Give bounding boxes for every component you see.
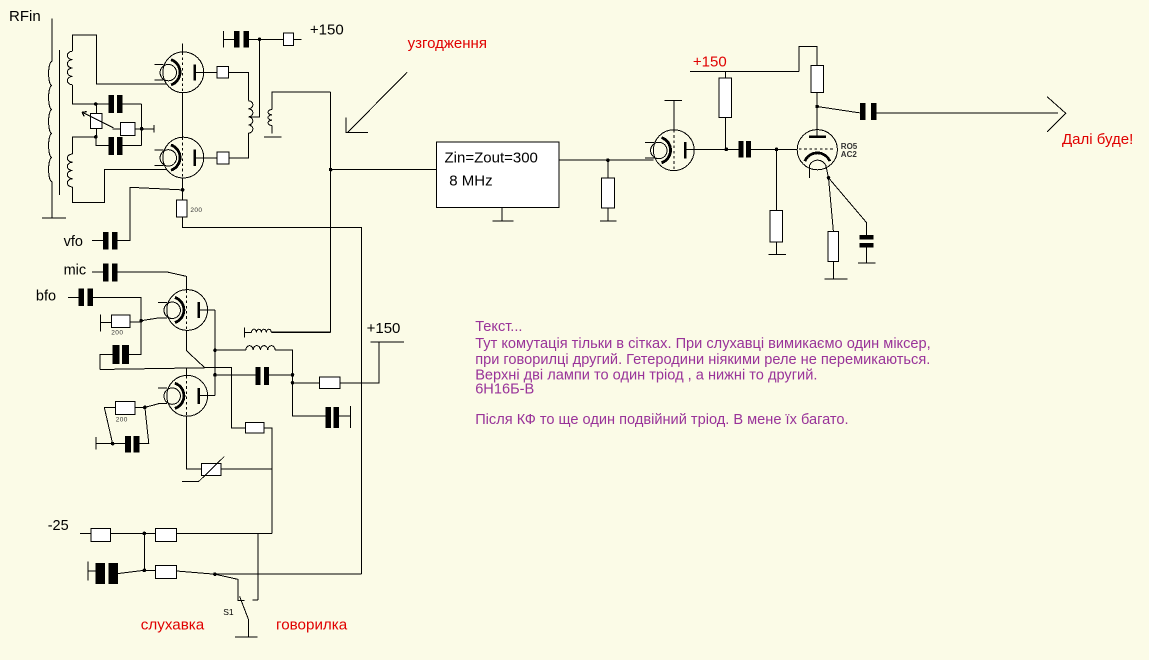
triode V4 RO5 AC2 [797, 130, 837, 178]
resistor R11 200 [111, 315, 130, 328]
node bus to filter [329, 168, 333, 172]
svg-text:+150: +150 [367, 320, 401, 337]
svg-text:200: 200 [111, 329, 123, 336]
wire C6 to ground [866, 247, 868, 263]
resistor R6 (V3 anode load) [719, 78, 732, 118]
node cap row junction [213, 373, 217, 377]
wire output arrowhead [1047, 97, 1066, 132]
trimmer RV1 wiper arrow [82, 112, 113, 128]
wire main bus vertical [271, 92, 330, 332]
node V4 labels RO5 AC2 [841, 142, 858, 159]
wire bfo line down to C10 [129, 321, 141, 355]
triode V6 (lower mixer-2 half) [158, 375, 207, 416]
wire grid bus V1/V2 solid segments [182, 44, 184, 190]
node cathode junction [827, 176, 831, 180]
resistor R16 [156, 565, 177, 578]
wire V6 anode to bus [200, 395, 215, 397]
svg-text:+150: +150 [693, 53, 727, 70]
wire anode bus vertical [214, 310, 216, 396]
svg-text:Текст...: Текст... [475, 319, 522, 335]
terminal stub +150 feed [222, 31, 224, 48]
wire cap row [215, 374, 293, 376]
wire RFin antenna lead [51, 18, 53, 61]
wire V5 anode to bus [200, 309, 215, 311]
wire stub to C14 [96, 443, 112, 445]
wire switch throw contact [253, 533, 259, 599]
wire R3 stub [293, 38, 301, 40]
capacitor C3 (lower tuning cap) [109, 137, 123, 155]
node commentary text block (purple) [475, 319, 931, 428]
wire filter output [559, 159, 653, 161]
grid V4 dashed [799, 148, 833, 150]
wire bias line to R13 [100, 367, 246, 428]
resistor R13 [246, 423, 264, 433]
node grid junction V4 [775, 148, 779, 152]
resistor R3 (+150 feed) [283, 33, 293, 46]
wire rail jog to R7 [799, 47, 817, 72]
capacitor C1 (decoupling) [234, 31, 249, 48]
wire bus to filter box [331, 169, 437, 171]
wire junction to R16 [144, 569, 155, 571]
svg-text:слухавка: слухавка [141, 617, 205, 634]
wire C13 to junction [118, 570, 144, 573]
wire cathode to R9 [829, 178, 834, 232]
node row B junction [213, 348, 217, 352]
capacitor C11 [256, 367, 270, 385]
wire V3 grid top lead [673, 100, 675, 129]
wire bottom rail of tuning network [96, 137, 142, 146]
wire cathode to C6 [829, 178, 867, 235]
trimmer resistor RV1 leads [95, 104, 97, 137]
resistor R8 (V4 grid leak) [770, 211, 782, 243]
wire vfo cap to grid junction [118, 187, 183, 240]
grid V6 dashed [186, 376, 188, 416]
wire row B left [215, 349, 246, 351]
svg-text:говорилка: говорилка [276, 617, 348, 634]
wire C10 to bias line [100, 355, 113, 370]
trimmer RV2 leads [221, 468, 272, 470]
ground [493, 220, 514, 222]
switch S1 lever [240, 596, 249, 636]
node junction wiper net [140, 127, 144, 131]
wire R11 to V5 cathode [130, 318, 164, 322]
trimmer RV2 slash [198, 457, 224, 482]
wire to grid resistor R5 [607, 160, 609, 178]
wire stub to R11 [101, 322, 112, 324]
terminal stub V5 200 resistor [100, 315, 102, 332]
wire R12 leads [293, 342, 379, 383]
capacitor C10 [113, 345, 129, 364]
resistor R12 (+150 feed) [319, 377, 340, 389]
triode V5 (upper mixer-2 half) [158, 290, 207, 331]
resistor R17 200 [115, 402, 135, 415]
wire secondary lower bottom to tube V2 cathode line [72, 170, 167, 203]
terminal stub grid top [665, 99, 682, 101]
trimmer RV2 [201, 464, 221, 476]
inductor L2 [246, 346, 275, 351]
transformer T2 secondary [268, 110, 272, 126]
wire switch pole [215, 574, 245, 600]
ground [858, 262, 876, 264]
svg-text:Після КФ то ще один подвійний: Після КФ то ще один подвійний тріод. В м… [475, 412, 848, 428]
transformer T1 secondary winding lower [67, 154, 72, 187]
wire grid bus segments mixer2 [187, 330, 202, 469]
resistor R10 200 [176, 200, 187, 217]
grid V1 dashed [182, 52, 184, 93]
node junction top [94, 102, 98, 106]
node -25 junction [143, 532, 147, 536]
node C14 junction [111, 442, 115, 446]
svg-text:bfo: bfo [36, 288, 56, 304]
terminal stub audio in [87, 561, 89, 580]
capacitor C8 (mic) [103, 264, 118, 282]
grid V2 dashed [182, 138, 184, 179]
wire V1 anode lead [196, 71, 217, 73]
node junction [143, 569, 147, 573]
svg-text:узгодження: узгодження [408, 35, 487, 52]
wire secondary lower top to tuning network [72, 137, 95, 154]
wire stub to L1 [245, 331, 252, 333]
wire R1 to coil top [229, 72, 249, 100]
wire -25 lead [80, 532, 91, 534]
wire grid diagonal tap [187, 351, 205, 368]
capacitor C2 (upper tuning cap) [109, 95, 123, 113]
node junction +150 net [258, 38, 262, 42]
wire R9 to ground [832, 261, 834, 278]
wire bfo lead [68, 296, 79, 298]
wire right vertical of tuning network [141, 104, 143, 145]
resistor R5 (grid leak) [602, 178, 615, 208]
node grid junction [181, 188, 185, 192]
wire V3 anode line to V4 [686, 148, 797, 150]
wire secondary upper bottom to tuning network [72, 85, 95, 104]
wire R4 to coil bottom [229, 133, 248, 158]
wire R6 to anode line [725, 118, 727, 150]
wire grid resistor R8 lead [776, 149, 778, 210]
inductor L1 [252, 329, 272, 332]
wire R13 to -25 rail [264, 428, 272, 534]
resistor R4 (V2 anode) [217, 152, 229, 164]
node R12 junction [291, 381, 295, 385]
svg-text:-25: -25 [48, 518, 69, 534]
wire R17 left slant down [104, 407, 115, 443]
wire mic lead [92, 271, 103, 273]
node bfo junction [139, 319, 143, 323]
resistor R9 (cathode) [828, 232, 839, 262]
svg-text:200: 200 [116, 417, 128, 424]
wire anode to output cap [817, 107, 860, 113]
terminal stub C14 [95, 437, 97, 449]
node anode output junction [815, 105, 819, 109]
svg-text:+150: +150 [310, 22, 344, 39]
wire annotation arrow [346, 72, 407, 133]
svg-text:6Н16Б-В: 6Н16Б-В [475, 381, 534, 397]
terminal stub output [349, 406, 351, 428]
svg-text:AC2: AC2 [841, 150, 858, 159]
svg-text:8 MHz: 8 MHz [449, 173, 492, 190]
grid V3 dashed [673, 130, 675, 171]
node output junction [606, 158, 610, 162]
wire C12 to terminal [339, 415, 350, 417]
svg-text:при говорилці другий. Гетероди: при говорилці другий. Гетеродини ніякими… [475, 352, 930, 368]
triode V1 (upper mixer half) [154, 52, 203, 93]
node +150 mid rail [371, 341, 404, 343]
capacitor C5 (output coupling) [860, 103, 877, 120]
transformer T1 secondary winding upper [67, 51, 72, 85]
wire C1 to R3 [249, 38, 283, 40]
wire switch node to bias line [215, 573, 361, 575]
wire filter ground stub [501, 208, 503, 221]
terminal stub [153, 125, 155, 133]
svg-text:200: 200 [190, 207, 202, 214]
wire V2 anode lead [196, 157, 217, 159]
svg-text:Zin=Zout=300: Zin=Zout=300 [445, 149, 538, 166]
svg-text:RFin: RFin [9, 8, 41, 25]
node anode-R6 junction [725, 148, 729, 152]
svg-text:vfo: vfo [64, 234, 83, 250]
svg-text:S1: S1 [223, 607, 234, 617]
svg-text:mic: mic [64, 262, 87, 278]
wire top rail of tuning network [96, 103, 142, 105]
wire R5 to ground [607, 208, 609, 221]
wire stub to C1 [223, 38, 234, 40]
wire L2 to output vertical [275, 350, 325, 416]
wire C14 leads [113, 443, 149, 445]
wire primary to ground [51, 182, 53, 219]
transformer T1 core [59, 50, 61, 195]
wire L1 right (joins bus) [271, 331, 330, 333]
wire R16 to switch node [177, 571, 215, 574]
wire R15 to grid feed vertical [177, 532, 273, 534]
wire +150 rail bar [690, 71, 799, 73]
resistor R15 [156, 528, 177, 541]
capacitor C7 (vfo) [103, 232, 118, 250]
capacitor C9 (bfo) [79, 289, 93, 307]
node junction bottom [94, 135, 98, 139]
capacitor C4 (coupling) [739, 141, 751, 158]
wire T2 secondary top to bus [272, 92, 330, 110]
transformer T1 primary winding [49, 62, 52, 182]
ground [42, 217, 66, 219]
filter U1 box Zin=Zout=300 8 MHz [437, 142, 560, 208]
triode V3 (IF amp) [645, 130, 694, 171]
ground [235, 636, 258, 638]
wire -25 junction down [143, 533, 145, 570]
resistor R7 (V4 anode load) [811, 65, 824, 92]
transformer T2 primary [248, 101, 253, 133]
resistor R2 (wiper series) [113, 128, 155, 130]
node C11 junction [291, 373, 295, 377]
wire R17 to V6 cathode [135, 404, 164, 408]
wire output line [877, 112, 1059, 114]
wire RV2 wiper stub [182, 480, 199, 482]
wire R10 to long bias line [183, 217, 362, 574]
svg-text:Далі буде!: Далі буде! [1062, 131, 1133, 148]
trimmer resistor RV1 [90, 114, 102, 129]
resistor R1 (V1 anode) [217, 66, 229, 78]
wire +150 to coil centre tap [248, 39, 259, 117]
ground [768, 253, 786, 255]
capacitor C12 (mixer2 output) [326, 407, 340, 428]
capacitor C6 (cathode bypass) [860, 235, 874, 247]
wire R14 to R15 [111, 532, 156, 534]
wire R8 to ground [775, 242, 777, 254]
wire grid junction to R10 [182, 190, 184, 200]
wire secondary upper top to tube V1 cathode line [72, 35, 166, 84]
grid V5 dashed [186, 290, 188, 330]
capacitor C13 [95, 563, 118, 584]
wire R7 to V4 anode [816, 93, 818, 137]
svg-text:Тут комутація тільки в сітках.: Тут комутація тільки в сітках. При слуха… [475, 336, 931, 352]
terminal stub row A [244, 327, 246, 337]
ground [264, 136, 281, 138]
triode V2 (lower mixer half) [154, 137, 203, 178]
wire T2 secondary bottom [271, 126, 273, 134]
ground [825, 278, 848, 280]
resistor R14 [91, 528, 110, 541]
wire mic to mixer2 grid bus [118, 272, 187, 290]
wire vfo lead [92, 240, 103, 242]
ground [600, 220, 617, 222]
wire bfo to V5 cathode node [93, 297, 141, 320]
wire rail to R6 [725, 72, 727, 78]
node V6 junction [143, 406, 147, 410]
capacitor C14 [125, 436, 140, 452]
node switch net junction [213, 572, 217, 576]
wire stub to C13 [88, 570, 95, 572]
wire junction slant down [145, 407, 149, 443]
